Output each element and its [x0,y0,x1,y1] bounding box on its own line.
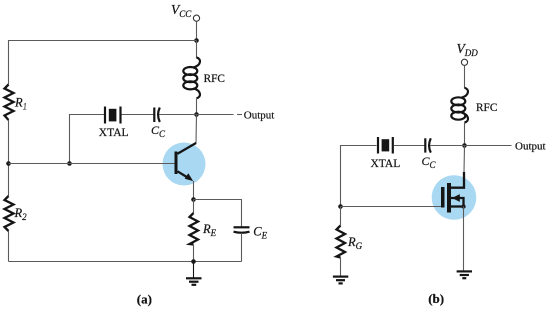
svg-text:R2: R2 [14,206,28,222]
svg-text:XTAL: XTAL [371,158,401,170]
wire output lead (b) [465,145,512,147]
label (b) [428,291,444,306]
svg-text:XTAL: XTAL [99,127,129,139]
node output junction (b) [462,143,467,148]
ground RG [333,277,348,284]
wire top rail [9,41,197,85]
wire RFC to output node [196,98,198,114]
label R1 [14,96,27,112]
Vdd terminal circle [461,59,467,65]
inductor RFC (a) [183,58,200,99]
svg-text:CC: CC [422,154,437,170]
svg-text:VDD: VDD [457,41,479,58]
label RE [202,222,217,238]
label Output (a) [244,109,275,121]
node ground junction (a) [191,259,196,264]
wire left rail bottom [8,231,10,262]
svg-text:RE: RE [202,222,217,238]
label (a) [137,291,152,306]
capacitor Cc (b) [425,138,431,152]
resistor RE [190,213,199,245]
node gate junction [338,204,343,209]
svg-text:Output: Output [515,141,546,153]
wire bottom rail [9,261,242,263]
Vcc terminal circle [193,15,199,21]
capacitor CE [234,227,250,232]
node source junction [461,204,465,208]
node output junction (a) [194,112,199,117]
node junction top [194,38,199,43]
crystal XTAL (b) [378,137,393,154]
svg-text:(b): (b) [428,291,444,306]
wire gate [341,206,442,208]
transistor Q2 symbol (n-channel MOSFET) [441,172,464,213]
wire Cc to output node (b) [430,145,465,147]
label Output (b) [515,141,546,153]
wire Vcc to RFC [196,41,198,59]
resistor R2 [5,196,14,231]
wire gate to RG [340,207,342,226]
wire drain drop [463,146,466,173]
wire RFC to output node (b) [464,123,466,146]
wire left rail mid [8,120,10,196]
node Vdd label [457,41,479,58]
label R2 [14,206,28,222]
capacitor Cc (a) [154,108,160,123]
svg-text:RG: RG [347,235,363,251]
wire Vdd stub [464,66,466,89]
resistor R1 [5,85,14,121]
wire RE to ground rail [193,245,195,262]
label XTAL (b) [371,158,401,170]
node junction xtal-base [67,161,72,166]
crystal XTAL (a) [105,107,121,124]
node junction base-rail [6,161,11,166]
node Vcc label [171,2,192,19]
wire emitter to CE [194,200,242,228]
transistor Q2 highlight circle [432,175,477,220]
transistor Q1 highlight circle [163,143,206,186]
resistor RG [337,226,346,258]
wire xtal left branch (b) [341,146,377,207]
label XTAL (a) [99,127,129,139]
inductor RFC (b) [451,88,468,123]
svg-text:VCC: VCC [171,2,192,19]
svg-text:RFC: RFC [204,73,225,85]
svg-text:Output: Output [244,109,275,121]
label RG [347,235,363,251]
wire xtal to Cc [122,114,154,116]
svg-text:CE: CE [253,225,267,241]
wire xtal to Cc (b) [394,145,425,147]
svg-text:CC: CC [151,123,166,139]
wire Cc to output node [159,114,197,116]
wire CE to bottom rail [241,233,243,262]
node emitter junction [191,197,196,202]
label CE [253,225,267,241]
wire emitter drop [193,181,195,200]
svg-text:RFC: RFC [476,102,497,114]
wire output lead (a) [197,114,243,116]
wire emitter to RE [193,200,195,214]
label Cc (b) [422,154,437,170]
svg-text:R1: R1 [14,96,27,112]
ground (a) [186,262,202,285]
wire xtal left branch [70,115,105,164]
wire source to ground [463,207,465,271]
label Cc (a) [151,123,166,139]
wire Vcc stub [196,21,198,40]
label RFC (b) [476,102,497,114]
wire base [9,163,175,165]
wire RG to ground [340,258,342,276]
ground source (b) [457,271,472,278]
label RFC (a) [204,73,225,85]
wire collector drop [195,115,198,144]
svg-text:(a): (a) [137,291,152,306]
transistor Q1 symbol [175,143,197,181]
